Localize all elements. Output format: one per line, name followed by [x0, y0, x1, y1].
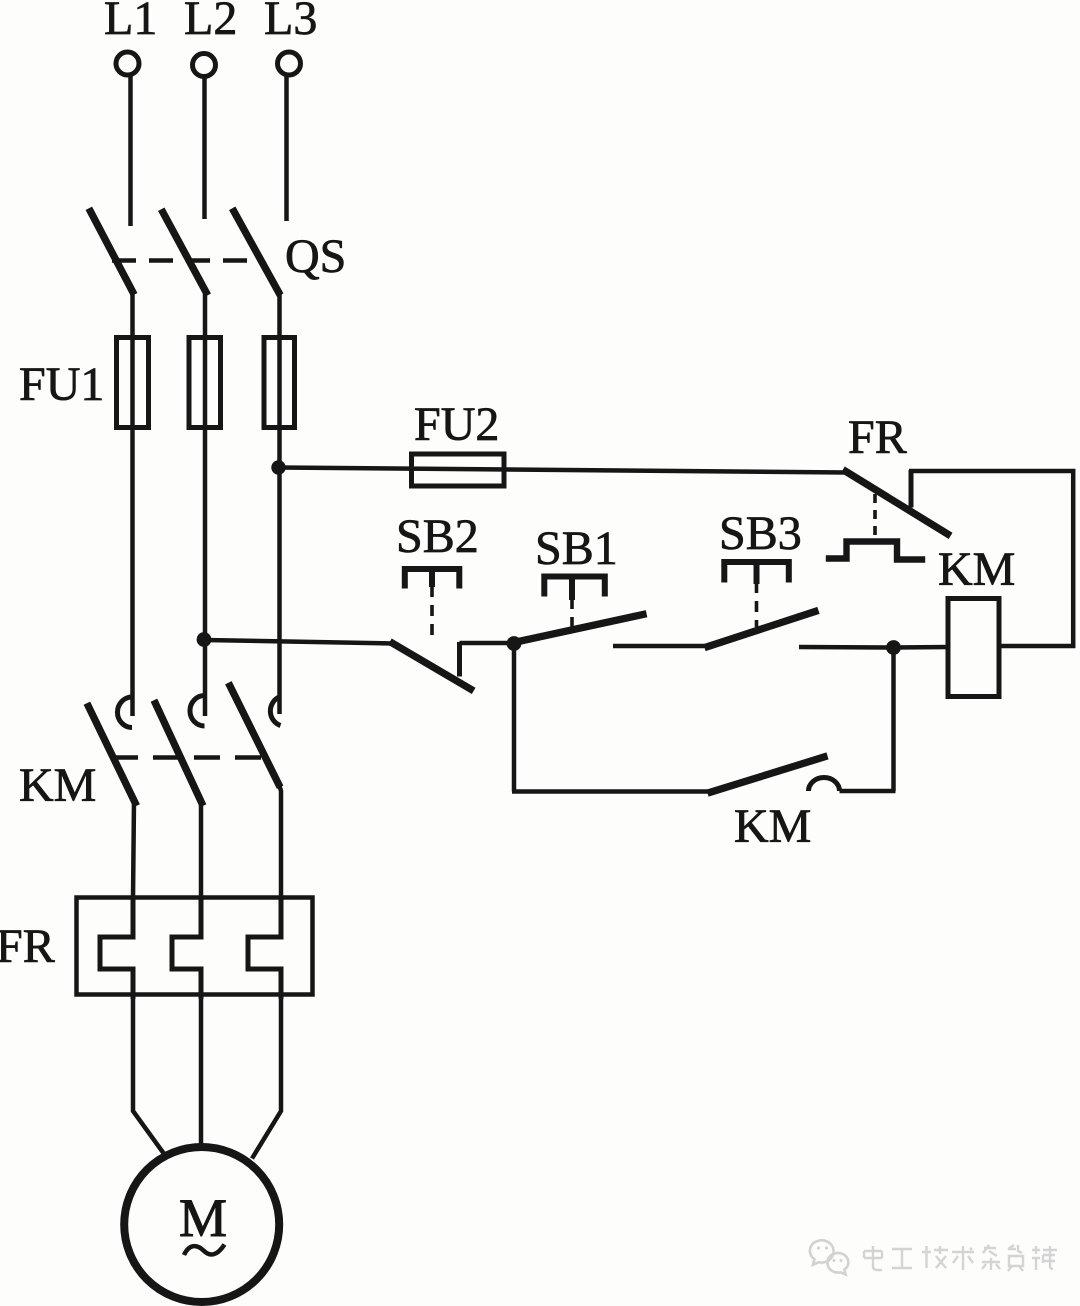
- motor AC tilde: [184, 1245, 225, 1256]
- svg-text:KM: KM: [19, 759, 96, 812]
- node junction self-hold left: [507, 636, 522, 651]
- wire SB2 to node: [460, 641, 511, 646]
- svg-text:L2: L2: [184, 0, 237, 45]
- wire SB1-SB3 run: [613, 644, 709, 649]
- relay FR heater box: [77, 898, 313, 995]
- button SB2 dashed stem: [430, 586, 434, 637]
- wire L3 stem: [284, 76, 289, 222]
- wire self-hold right vertical: [891, 648, 896, 791]
- contactor KM pole2 arc: [190, 696, 205, 727]
- svg-text:KM: KM: [938, 543, 1015, 596]
- wire aux right run: [840, 789, 896, 794]
- motor M circle: [124, 1147, 279, 1302]
- node junction phase3 control tap: [271, 460, 285, 474]
- relay FR heater element 3: [248, 896, 281, 999]
- svg-text:FU2: FU2: [414, 398, 499, 451]
- watermark text gong: [892, 1249, 912, 1268]
- watermark text pu: [1032, 1246, 1057, 1270]
- contact KM auxiliary arc: [809, 778, 840, 792]
- wire control row left run: [205, 640, 395, 644]
- watermark text za: [982, 1245, 1000, 1270]
- fuse FU2 body: [412, 454, 505, 486]
- wire coil right run: [997, 644, 1075, 649]
- button SB2 cap: [405, 569, 460, 586]
- button SB2 (NC) blade: [393, 644, 471, 690]
- node junction self-hold right: [886, 640, 901, 655]
- wire control top run: [279, 468, 848, 473]
- wire right vertical: [1071, 469, 1076, 648]
- wire phase2 vertical: [203, 290, 208, 716]
- button SB3 cap: [724, 562, 789, 581]
- svg-text:SB2: SB2: [396, 510, 479, 563]
- watermark text huo: [1008, 1245, 1023, 1271]
- wire L2 stem: [202, 77, 207, 219]
- svg-text:FU1: FU1: [19, 358, 104, 411]
- watermark wechat logo: [810, 1240, 848, 1274]
- contactor KM pole3 arc: [270, 697, 280, 726]
- wire SB3 to node: [799, 645, 888, 650]
- terminal circle L1: [116, 52, 139, 75]
- fuse FU1 element 1: [117, 338, 149, 428]
- relay FR thermal actuator symbol: [829, 542, 922, 560]
- svg-text:FR: FR: [848, 411, 907, 464]
- wire motor feeder 3: [252, 997, 281, 1159]
- node junction phase2 control tap: [197, 632, 212, 647]
- svg-text:FR: FR: [0, 920, 55, 973]
- contactor KM pole2 blade: [156, 704, 202, 803]
- svg-text:KM: KM: [734, 800, 811, 853]
- contact KM auxiliary (NO) blade: [711, 757, 824, 792]
- svg-text:L3: L3: [264, 0, 317, 45]
- watermark text ji: [922, 1246, 948, 1268]
- button SB1 dashed stem: [570, 598, 574, 629]
- contactor KM pole3 blade: [230, 686, 279, 784]
- wire phase1 vertical: [130, 289, 135, 716]
- svg-text:M: M: [179, 1188, 227, 1248]
- contactor KM linkage dashed: [112, 755, 263, 760]
- button SB3 (NO) blade: [708, 612, 815, 647]
- svg-text:QS: QS: [285, 230, 346, 283]
- terminal circle L3: [278, 52, 301, 75]
- button SB3 dashed stem: [755, 582, 759, 627]
- contactor KM pole1 arc: [117, 697, 132, 728]
- button SB1 cap: [544, 577, 605, 598]
- coil KM body: [948, 599, 999, 697]
- wire pole1 to heater: [133, 800, 134, 899]
- svg-text:L1: L1: [104, 0, 157, 45]
- watermark text shu: [952, 1246, 974, 1270]
- relay FR heater element 2: [172, 896, 201, 999]
- relay contact FR (NC) blade: [846, 472, 948, 535]
- relay contact FR right terminal step: [909, 470, 914, 508]
- wire self-hold bottom run: [512, 789, 712, 794]
- terminal circle L2: [193, 54, 216, 77]
- watermark text dian: [864, 1246, 882, 1270]
- relay contact FR dashed link: [873, 494, 877, 540]
- wire self-hold left vertical: [512, 646, 517, 792]
- wire pole3 to heater: [279, 783, 282, 899]
- svg-text:SB1: SB1: [535, 522, 618, 575]
- fuse FU1 element 2: [189, 338, 221, 428]
- wire top right run: [909, 469, 1075, 474]
- button SB1 (NO) blade: [516, 615, 643, 643]
- wire phase3 vertical: [277, 290, 282, 714]
- switch QS pole 1 blade: [91, 212, 133, 292]
- svg-text:SB3: SB3: [719, 507, 802, 560]
- switch QS pole 2 blade: [163, 213, 206, 293]
- wire L1 stem: [128, 76, 133, 227]
- wire node to coil: [894, 645, 951, 650]
- contactor KM pole1 blade: [89, 707, 136, 803]
- switch QS pole 3 blade: [234, 212, 279, 293]
- switch QS linkage dashed: [112, 258, 263, 263]
- relay FR heater element 1: [100, 896, 133, 999]
- wire pole2 to heater: [199, 800, 204, 899]
- button SB2 right terminal step: [457, 642, 462, 677]
- wire motor feeder 2: [199, 997, 204, 1147]
- fuse FU1 element 3: [264, 338, 295, 428]
- wire motor feeder 1: [133, 997, 165, 1155]
